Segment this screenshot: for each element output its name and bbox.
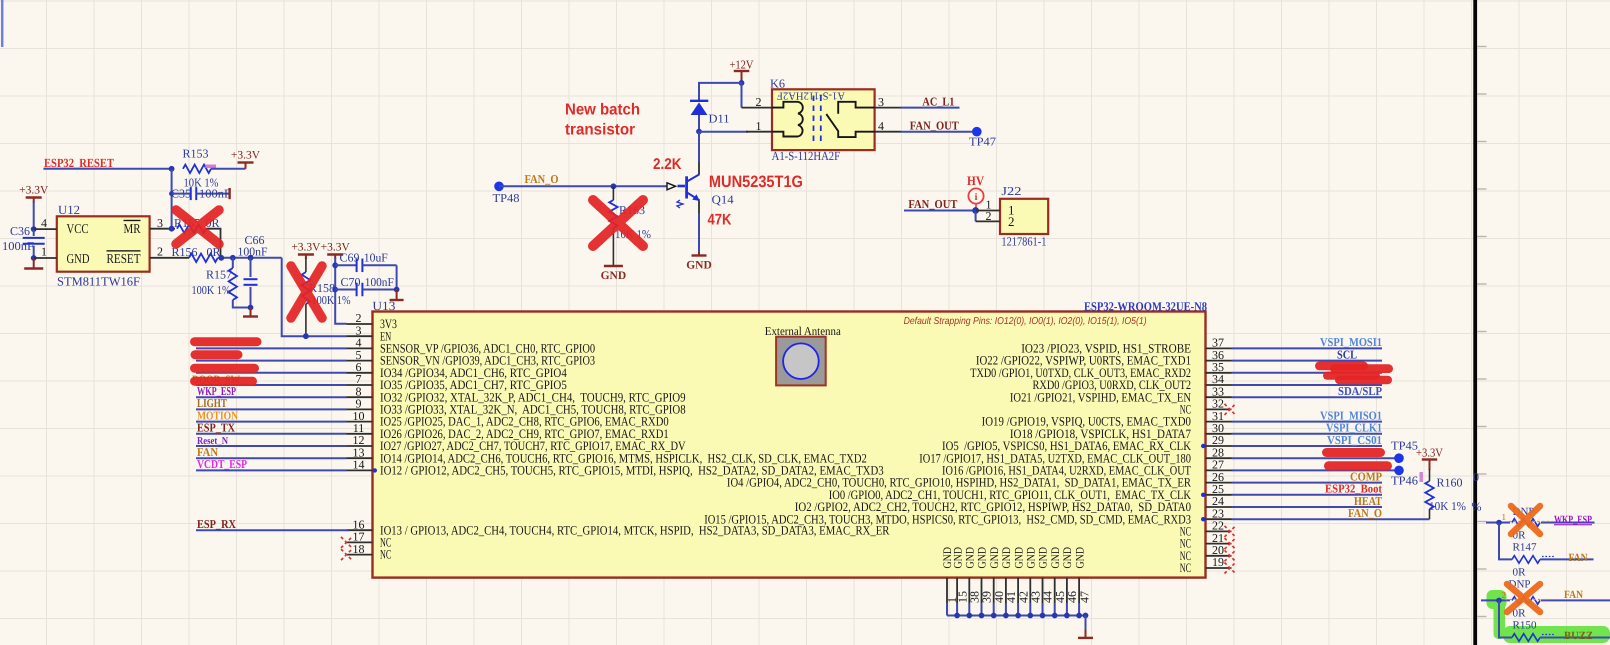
power bar (C35 right) bbox=[228, 188, 230, 199]
svg-text:GND: GND bbox=[952, 547, 964, 569]
wire net SDA/SLP (pin 33) bbox=[1232, 396, 1383, 398]
pin 20 stub (U13 right) bbox=[1206, 555, 1232, 557]
wire pin 7 (scribbled net) bbox=[196, 384, 347, 386]
wire +12V to D11 branch bbox=[699, 83, 742, 101]
junction node +12V bbox=[739, 80, 745, 86]
orange X over DNP top bbox=[1511, 506, 1540, 534]
svg-text:+12V: +12V bbox=[730, 57, 754, 71]
svg-text:33: 33 bbox=[1212, 384, 1224, 398]
U13 bottom GND pin stubs bbox=[946, 578, 948, 603]
sheet divider (black border) bbox=[1473, 0, 1477, 645]
svg-text:4: 4 bbox=[41, 216, 47, 230]
svg-text:37: 37 bbox=[1212, 336, 1224, 350]
junction node R157 top bbox=[230, 255, 236, 261]
svg-text:ESP_TX: ESP_TX bbox=[197, 421, 235, 435]
dotted marks right of R150 bbox=[1542, 634, 1554, 636]
svg-text:31: 31 bbox=[1212, 409, 1224, 423]
wire pin 5 (scribbled net) bbox=[196, 360, 347, 362]
pin 10 stub (U13 left) bbox=[347, 421, 373, 423]
svg-text:GND: GND bbox=[965, 547, 977, 569]
pin 37 stub (U13 right) bbox=[1206, 347, 1232, 349]
svg-text:+3.3V: +3.3V bbox=[1416, 446, 1443, 460]
svg-text:A1-S-112HA2F: A1-S-112HA2F bbox=[772, 149, 841, 163]
sheet ruler ticks bbox=[1477, 47, 1486, 617]
svg-text:IO21 /GPIO21, VSPIHD, EMAC_TX_: IO21 /GPIO21, VSPIHD, EMAC_TX_EN bbox=[1010, 390, 1191, 404]
svg-text:WKP_ESP: WKP_ESP bbox=[1554, 514, 1592, 526]
junction node R163 top bbox=[611, 183, 617, 189]
wire C69 right leg down bbox=[396, 265, 398, 289]
svg-text:GND: GND bbox=[1062, 547, 1074, 569]
pin 5 stub (U13 left) bbox=[347, 360, 373, 362]
junction node GND/C36 bbox=[31, 255, 37, 261]
svg-text:C36: C36 bbox=[10, 224, 30, 238]
svg-text:20: 20 bbox=[1212, 543, 1224, 557]
junction node C69 left bbox=[332, 262, 338, 268]
wire net LIGHT (pin 9) bbox=[196, 408, 347, 410]
junction node C66 top bbox=[248, 255, 254, 261]
wire bus to ground bbox=[1085, 616, 1087, 630]
svg-text:2: 2 bbox=[1502, 590, 1507, 600]
pin 18 stub (U13 left) bbox=[347, 554, 373, 556]
wire net VCDT_ESP (pin 14) bbox=[196, 469, 347, 471]
svg-text:i: i bbox=[975, 192, 978, 203]
svg-text:100nF: 100nF bbox=[2, 239, 34, 253]
green highlighter marks bbox=[1487, 590, 1610, 643]
no-connect X pin 18 bbox=[341, 549, 352, 560]
test point TP47 bbox=[972, 127, 982, 137]
wire row3 to row4 bbox=[1499, 600, 1512, 637]
wire pin 35 (scribbled net) bbox=[1232, 372, 1383, 374]
svg-text:29: 29 bbox=[1212, 433, 1224, 447]
svg-text:GND: GND bbox=[1038, 547, 1050, 569]
pin 33 stub (U13 right) bbox=[1206, 396, 1232, 398]
scribble redaction pin28 bbox=[1322, 448, 1385, 457]
pin 29 stub (U13 right) bbox=[1206, 445, 1232, 447]
svg-text:D11: D11 bbox=[709, 111, 730, 125]
svg-text:%: % bbox=[1472, 500, 1482, 514]
svg-text:STM811TW16F: STM811TW16F bbox=[57, 274, 140, 288]
wire pin 28 to TP45 (scribbled net) bbox=[1232, 457, 1395, 459]
power +3.3V (R158) bbox=[298, 253, 314, 255]
wire net FAN (row2) bbox=[1540, 558, 1594, 560]
svg-text:R157: R157 bbox=[206, 267, 232, 281]
wire R156 output node bbox=[218, 257, 282, 259]
svg-text:18: 18 bbox=[353, 542, 365, 556]
svg-text:R153: R153 bbox=[183, 147, 209, 161]
junction node MR/C35 bbox=[169, 226, 175, 232]
wire GND bus bbox=[947, 615, 1086, 617]
wire FAN_O to Q14 base bbox=[499, 185, 667, 187]
wire net FAN (row3) bbox=[1481, 599, 1510, 601]
pin 24 stub (U13 right) bbox=[1206, 506, 1232, 508]
svg-text:35: 35 bbox=[1212, 360, 1224, 374]
wire net VSPI_CLK1 (pin 30) bbox=[1232, 433, 1383, 435]
svg-text:100nF: 100nF bbox=[238, 244, 268, 258]
pin 30 stub (U13 right) bbox=[1206, 433, 1232, 435]
wire R155 to R156 output bbox=[206, 229, 221, 258]
wire net ESP_RX (pin 16) bbox=[196, 529, 349, 531]
svg-text:VCDT_ESP: VCDT_ESP bbox=[197, 457, 247, 471]
svg-text:VSPI_CS01: VSPI_CS01 bbox=[1327, 433, 1382, 447]
wire net VSPI_CS01 (pin 29) bbox=[1232, 445, 1383, 447]
svg-text:19: 19 bbox=[1212, 555, 1224, 569]
wire collector bbox=[698, 132, 700, 163]
svg-text:1: 1 bbox=[41, 245, 47, 259]
svg-text:SCL: SCL bbox=[1337, 347, 1357, 361]
wire net ESP_TX (pin 11) bbox=[196, 433, 347, 435]
scribble redaction pin27 bbox=[1324, 461, 1392, 470]
svg-text:New batch: New batch bbox=[565, 102, 640, 119]
wire net FAN (pin 13) bbox=[196, 457, 347, 459]
scribble redaction pin5 bbox=[191, 350, 243, 359]
wire pin 27 to TP46 (scribbled net) bbox=[1232, 469, 1395, 471]
svg-text:BUZZ: BUZZ bbox=[1564, 630, 1593, 642]
svg-text:SDA/SLP: SDA/SLP bbox=[1338, 384, 1382, 398]
svg-text:U12: U12 bbox=[58, 203, 80, 217]
pin 22 stub (U13 right) bbox=[1206, 530, 1232, 532]
svg-text:GND: GND bbox=[1026, 547, 1038, 569]
svg-text:RESET: RESET bbox=[107, 251, 142, 266]
pin 25 stub (U13 right) bbox=[1206, 494, 1232, 496]
relay contact bbox=[838, 102, 874, 114]
power +3.3V (C36) bbox=[26, 196, 42, 198]
wire net WKP_ESP (right sheet row) bbox=[1486, 522, 1510, 524]
ground (C36) bbox=[33, 258, 35, 269]
svg-text:GND: GND bbox=[686, 260, 712, 272]
svg-text:30: 30 bbox=[1212, 421, 1224, 435]
svg-text:26: 26 bbox=[1212, 470, 1224, 484]
wire net SCL (pin 36) bbox=[1232, 360, 1383, 362]
junction dots GND bus bbox=[954, 613, 960, 619]
wire 3V3 rail down to chip bbox=[335, 258, 346, 324]
pin 23 stub (U13 right) bbox=[1206, 518, 1232, 520]
pin 6 stub (U13 left) bbox=[347, 372, 373, 374]
svg-text:28: 28 bbox=[1212, 445, 1224, 459]
svg-text:Default Strapping Pins: IO12(0: Default Strapping Pins: IO12(0), IO0(1),… bbox=[904, 316, 1147, 327]
ground (R163) bbox=[604, 265, 623, 267]
junction node R158/EN bbox=[303, 333, 309, 339]
no-connect X pin 32 bbox=[1225, 404, 1236, 415]
ground (C66) bbox=[250, 308, 252, 317]
svg-text:A1-S-112HA2F: A1-S-112HA2F bbox=[777, 89, 845, 101]
svg-text:MR: MR bbox=[124, 221, 141, 236]
svg-text:+3.3V: +3.3V bbox=[19, 185, 49, 197]
junction node D11/relay pin1/collector bbox=[696, 129, 702, 135]
red X mark over R163 bbox=[593, 200, 643, 246]
junction node J22 pin1 bbox=[972, 207, 979, 214]
svg-text:25: 25 bbox=[1212, 482, 1224, 496]
svg-text:ESP_RX: ESP_RX bbox=[197, 517, 236, 531]
pin 14 stub (U13 left) bbox=[347, 469, 373, 471]
svg-text:NC: NC bbox=[380, 548, 391, 562]
red X mark over R155 bbox=[176, 210, 219, 244]
relay isolation dashed lines bbox=[814, 96, 821, 144]
U13 bottom pin numbers bbox=[945, 591, 1091, 603]
junction node C69/C70 right bbox=[394, 287, 400, 293]
svg-text:GND: GND bbox=[67, 251, 90, 266]
junction node C70 left bbox=[332, 287, 338, 293]
svg-text:J22: J22 bbox=[1001, 184, 1021, 198]
junction node C66/R157 bottom bbox=[248, 305, 254, 311]
svg-text:R147: R147 bbox=[1513, 542, 1537, 554]
diode D11 bbox=[690, 100, 708, 102]
pin 11 stub (U13 left) bbox=[347, 433, 373, 435]
pin 21 stub (U13 right) bbox=[1206, 543, 1232, 545]
no-connect X pin 20 bbox=[1225, 550, 1236, 561]
svg-text:TP47: TP47 bbox=[969, 135, 996, 149]
svg-text:23: 23 bbox=[1212, 506, 1224, 520]
svg-text:21: 21 bbox=[1212, 531, 1224, 545]
svg-text:GND: GND bbox=[977, 547, 989, 569]
svg-text:FAN_O: FAN_O bbox=[525, 172, 559, 186]
pin 34 stub (U13 right) bbox=[1206, 384, 1232, 386]
wire ESP32_RESET bbox=[43, 168, 171, 170]
power +3.3V (3V3 rail) bbox=[327, 253, 343, 255]
svg-text:GND: GND bbox=[1013, 547, 1025, 569]
wire EN net (C66 to chip EN) bbox=[282, 258, 347, 336]
wire to J22 pin2 bbox=[975, 211, 977, 222]
svg-text:HV: HV bbox=[967, 173, 985, 188]
svg-text:FAN_OUT: FAN_OUT bbox=[908, 197, 957, 211]
pin 32 stub (U13 right) bbox=[1206, 408, 1232, 410]
wire D11 to collector node bbox=[698, 115, 700, 132]
junction node R156/R155 bbox=[218, 255, 224, 261]
no-connect X pin 22 bbox=[1225, 526, 1236, 537]
pin 19 stub (U13 right) bbox=[1206, 567, 1232, 569]
wire net Reset_N (pin 12) bbox=[196, 445, 347, 447]
wire vertical to C35 and U12 pin3 bbox=[171, 169, 173, 229]
wire net VSPI_MISO1 (pin 31) bbox=[1232, 421, 1383, 423]
svg-text:GND: GND bbox=[989, 547, 1001, 569]
no-connect X pin 17 bbox=[341, 537, 352, 548]
scribble redaction pin35 bbox=[1315, 362, 1368, 371]
pin 8 stub (U13 left) bbox=[347, 396, 373, 398]
pin dot markers at chip edge bbox=[373, 468, 377, 472]
svg-text:3: 3 bbox=[157, 216, 163, 230]
svg-text:0: 0 bbox=[1473, 470, 1479, 484]
svg-text:FAN: FAN bbox=[1569, 552, 1588, 564]
wire net ESP32_Boot (pin 25) bbox=[1232, 494, 1383, 496]
wire net VSPI_MOSI1 (pin 37) bbox=[1232, 347, 1383, 349]
pin 7 stub (U13 left) bbox=[347, 384, 373, 386]
svg-text:NC: NC bbox=[1180, 561, 1191, 575]
svg-text:10uF: 10uF bbox=[364, 251, 388, 265]
scribble redaction pin7 bbox=[190, 377, 257, 386]
svg-text:FAN_O: FAN_O bbox=[1348, 506, 1382, 520]
svg-text:IO15 /GPIO15, ADC2_CH3, TOUCH3: IO15 /GPIO15, ADC2_CH3, TOUCH3, MTDO, HS… bbox=[704, 512, 1191, 526]
svg-text:+3.3V: +3.3V bbox=[231, 150, 261, 162]
svg-text:transistor: transistor bbox=[565, 122, 635, 139]
svg-text:2: 2 bbox=[1008, 214, 1015, 229]
pin 2 stub (U13 left) bbox=[347, 323, 373, 325]
antenna symbol box bbox=[776, 337, 826, 386]
svg-text:100nF: 100nF bbox=[365, 275, 394, 289]
pin 26 stub (U13 right) bbox=[1206, 482, 1232, 484]
wire node to relay pin 1 bbox=[699, 131, 748, 133]
pin 35 stub (U13 right) bbox=[1206, 372, 1232, 374]
svg-text:R160: R160 bbox=[1437, 476, 1463, 490]
wire FAN_OUT to J22 bbox=[904, 210, 976, 212]
svg-text:100K 1%: 100K 1% bbox=[192, 283, 231, 297]
U13 bottom GND pin labels bbox=[942, 547, 1086, 569]
svg-text:36: 36 bbox=[1212, 348, 1224, 362]
svg-text:34: 34 bbox=[1212, 372, 1224, 386]
svg-text:14: 14 bbox=[353, 458, 365, 472]
svg-text:R150: R150 bbox=[1513, 620, 1537, 632]
svg-text:AC_L1: AC_L1 bbox=[922, 95, 954, 109]
svg-text:24: 24 bbox=[1212, 494, 1224, 508]
pin 28 stub (U13 right) bbox=[1206, 457, 1232, 459]
no-connect X pin 19 bbox=[1225, 563, 1236, 574]
dotted marks right of R147 bbox=[1542, 556, 1554, 558]
svg-text:2.2K: 2.2K bbox=[653, 156, 682, 173]
wire +12V to relay pin2 bbox=[741, 83, 743, 108]
sheet edge line (left) bbox=[1, 0, 4, 47]
test point TP46 bbox=[1394, 466, 1404, 476]
svg-text:TP46: TP46 bbox=[1391, 474, 1418, 488]
svg-text:GND: GND bbox=[1001, 547, 1013, 569]
wire net FAN_O (pin 23) bbox=[1232, 518, 1430, 520]
svg-text:GND: GND bbox=[601, 270, 627, 282]
pin 17 stub (U13 left) bbox=[347, 541, 373, 543]
svg-text:47K: 47K bbox=[708, 212, 733, 229]
wire net MOTION (pin 10) bbox=[196, 421, 347, 423]
junction node row1 bbox=[1496, 520, 1502, 526]
no-connect X pin 21 bbox=[1225, 538, 1236, 549]
svg-text:FAN_OUT: FAN_OUT bbox=[910, 118, 959, 132]
pin 12 stub (U13 left) bbox=[347, 445, 373, 447]
svg-text:MUN5235T1G: MUN5235T1G bbox=[709, 173, 803, 191]
junction node row3 bbox=[1496, 598, 1502, 604]
svg-text:32: 32 bbox=[1212, 397, 1224, 411]
svg-text:TP45: TP45 bbox=[1391, 439, 1418, 453]
scribble redaction pin4 bbox=[190, 337, 262, 346]
svg-text:22: 22 bbox=[1212, 519, 1224, 533]
power +3.3V (R153) bbox=[238, 161, 254, 163]
pin 36 stub (U13 right) bbox=[1206, 360, 1232, 362]
relay coil bbox=[772, 102, 798, 108]
svg-text:GND: GND bbox=[1050, 547, 1062, 569]
pin 31 stub (U13 right) bbox=[1206, 421, 1232, 423]
svg-text:ESP32_RESET: ESP32_RESET bbox=[44, 156, 115, 170]
ground (C69/C70) bbox=[396, 290, 398, 301]
scribble redaction pin6 bbox=[190, 364, 259, 373]
svg-text:+3.3V: +3.3V bbox=[291, 241, 321, 253]
svg-text:1217861-1: 1217861-1 bbox=[1001, 235, 1046, 249]
wire net WKP_ESP (pin 8) bbox=[196, 396, 347, 398]
wire R153 to +3.3V bbox=[211, 168, 246, 170]
wire net HEAT (pin 24) bbox=[1232, 506, 1383, 508]
wire row1 to row2 bbox=[1499, 523, 1512, 560]
pin 9 stub (U13 left) bbox=[347, 408, 373, 410]
wire pin 6 (scribbled net) bbox=[196, 372, 347, 374]
svg-text:TP48: TP48 bbox=[493, 191, 520, 205]
svg-text:FAN: FAN bbox=[1564, 589, 1583, 601]
svg-text:0R: 0R bbox=[1513, 567, 1527, 579]
svg-text:10K 1%: 10K 1% bbox=[1429, 499, 1466, 513]
scribble redaction pin34 bbox=[1323, 372, 1380, 380]
wire pin 4 (scribbled net) bbox=[196, 347, 347, 349]
svg-text:VCC: VCC bbox=[67, 221, 89, 236]
red X mark over R158 bbox=[291, 266, 322, 318]
wire +3.3V to U12 VCC bbox=[33, 202, 35, 229]
svg-text:2: 2 bbox=[157, 245, 163, 259]
svg-text:Q14: Q14 bbox=[712, 192, 734, 206]
ground (Q14 emitter) bbox=[698, 252, 700, 256]
junction node VCC/C36 bbox=[31, 226, 37, 232]
svg-text:GND: GND bbox=[1074, 547, 1086, 569]
pin 3 stub (U13 left) bbox=[347, 335, 373, 337]
junction node ESP32_RESET/R153/C35 bbox=[169, 166, 175, 172]
wire pin 34 (scribbled net) bbox=[1232, 384, 1383, 386]
orange X over DNP bottom bbox=[1507, 584, 1540, 612]
pin 4 stub (U13 left) bbox=[347, 347, 373, 349]
svg-text:ESP32-WROOM-32UE-N8: ESP32-WROOM-32UE-N8 bbox=[1084, 299, 1207, 313]
wire emitter to ground bbox=[698, 201, 700, 214]
wire net BUZZ (row4) bbox=[1540, 637, 1610, 639]
wire net COMP (pin 26) bbox=[1232, 482, 1383, 484]
test point TP48 bbox=[494, 182, 504, 192]
svg-text:100nF: 100nF bbox=[199, 186, 231, 200]
svg-text:27: 27 bbox=[1212, 458, 1224, 472]
pin 13 stub (U13 left) bbox=[347, 457, 373, 459]
pin 27 stub (U13 right) bbox=[1206, 469, 1232, 471]
ground (U13) bbox=[1085, 630, 1087, 638]
svg-text:1: 1 bbox=[1502, 512, 1507, 522]
pin 16 stub (U13 left) bbox=[347, 529, 373, 531]
